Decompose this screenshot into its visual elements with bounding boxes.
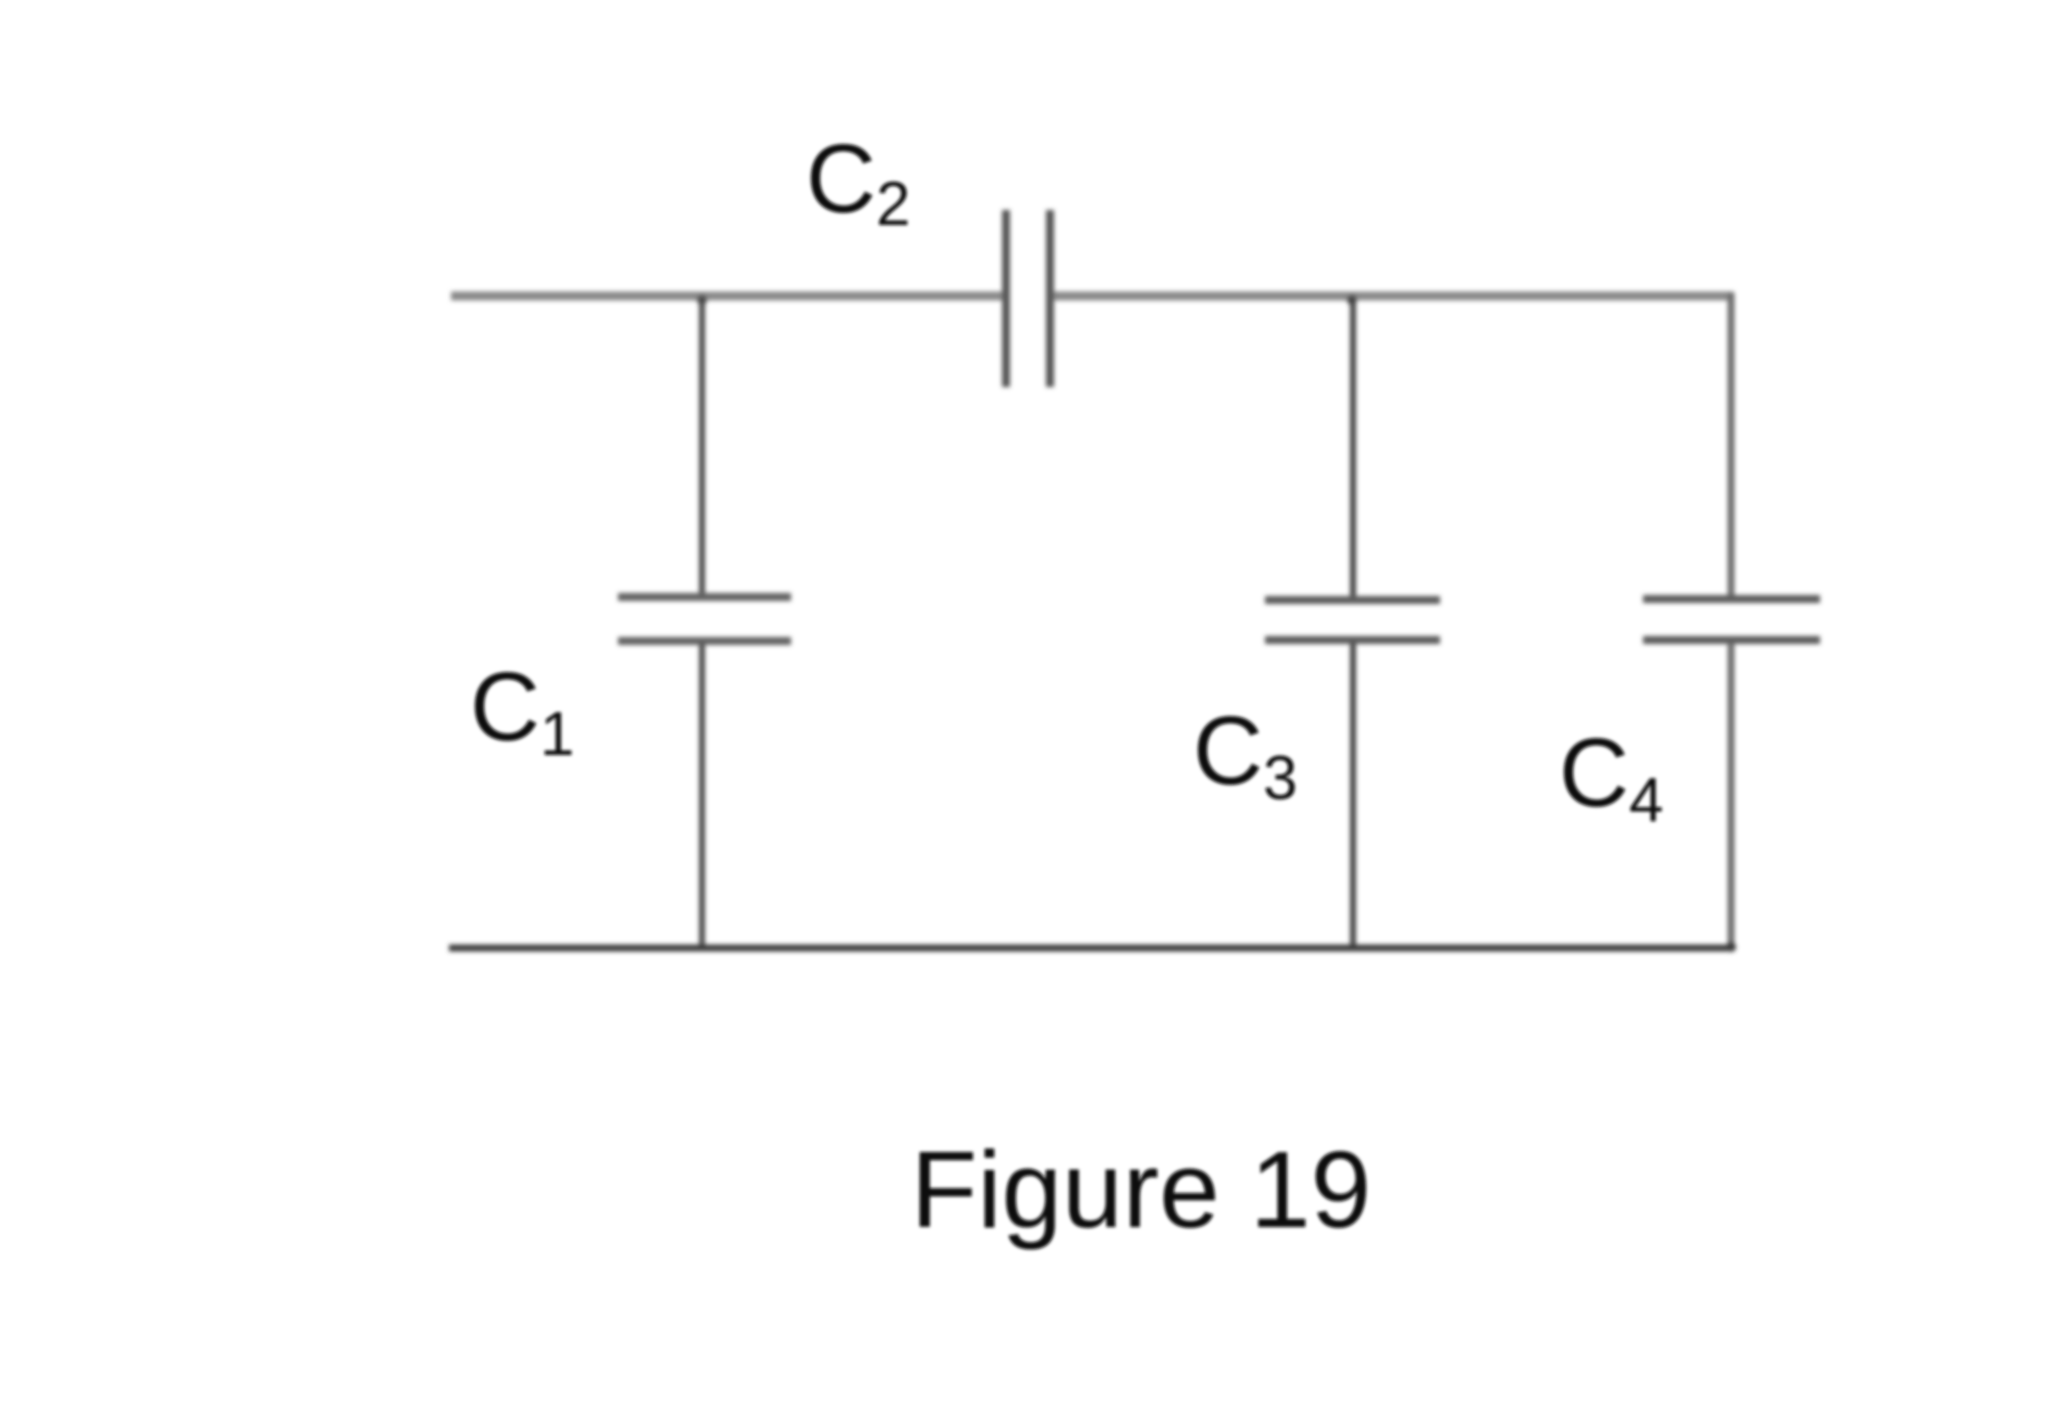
wire right vertical lower (C4 bottom leg): [1728, 643, 1735, 948]
node C bottom-right corner junction: [1726, 942, 1736, 952]
wire right vertical upper (C4 top leg): [1728, 293, 1735, 596]
capacitor C3: [1265, 600, 1440, 640]
wire top right segment: [1053, 292, 1734, 301]
node A junction top of C1 branch: [697, 295, 707, 305]
svg-text:1: 1: [540, 700, 574, 769]
capacitor C2: [1006, 210, 1050, 387]
wire C3 upper leg: [1350, 296, 1356, 597]
capacitor C4: [1643, 599, 1820, 640]
svg-text:4: 4: [1629, 766, 1663, 835]
svg-text:2: 2: [876, 170, 910, 239]
wire C1 lower leg: [699, 644, 705, 951]
node B junction top of C3 branch: [1347, 295, 1357, 305]
svg-text:Figure 19: Figure 19: [911, 1129, 1371, 1251]
svg-text:C: C: [1559, 718, 1629, 827]
capacitor C1: [618, 597, 791, 641]
svg-text:C: C: [470, 652, 540, 761]
svg-text:3: 3: [1263, 744, 1297, 813]
svg-text:C: C: [806, 124, 876, 233]
svg-text:C: C: [1193, 696, 1263, 805]
wire top left segment: [451, 292, 1003, 301]
wire C3 lower leg: [1350, 643, 1356, 951]
wire C1 upper leg: [699, 296, 705, 594]
wire bottom: [449, 945, 1734, 952]
